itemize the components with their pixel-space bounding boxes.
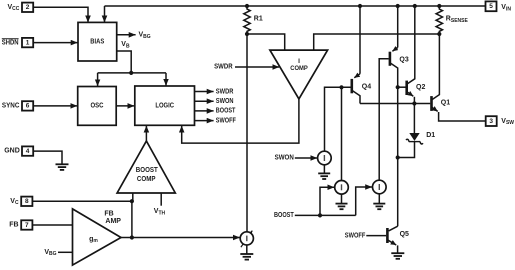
wire SWDR into I COMP [235,66,279,68]
op-amp I COMP [270,50,328,99]
wire OSC to LOGIC [116,105,134,107]
transistor Q5 (NPN) [366,226,409,253]
svg-text:BIAS: BIAS [90,39,104,46]
svg-text:COMP: COMP [137,176,156,183]
wire LOGIC output SWDR [195,91,214,93]
pin 1 SHDN box [22,38,33,47]
wire SWON arrow [295,157,317,159]
wire VC to node [32,200,131,202]
wire Q4 base junction down to current source B [341,87,343,181]
wire current source C to ground [378,194,380,204]
wire summer to ground [246,245,248,254]
wire GND pin to ground [33,151,62,164]
wire VBG to FB AMP [58,251,73,253]
pin 2 VCC box [22,3,33,12]
svg-text:R1: R1 [254,16,263,23]
svg-text:SWON: SWON [216,98,234,105]
svg-text:SHDN: SHDN [2,39,19,46]
wire VCC to BIAS top [33,7,88,22]
junction rail at Q4 emitter [358,4,362,8]
wire Q4 base [325,87,351,151]
svg-text:SWDR: SWDR [214,64,233,71]
wire current source B to ground [341,194,343,204]
svg-text:Q2: Q2 [416,84,425,91]
current source C [373,180,387,194]
svg-text:D1: D1 [426,132,435,139]
svg-text:SWON: SWON [275,154,294,161]
svg-text:Q1: Q1 [441,99,450,106]
junction rail at Q2 collector [413,4,417,8]
svg-text:2: 2 [26,4,30,11]
svg-text:Q3: Q3 [399,56,408,63]
wire BOOST horizontal [295,214,356,216]
ground (summer) [240,254,253,260]
diode D1 (schottky) [398,104,436,158]
svg-text:SWOFF: SWOFF [345,232,366,239]
ground (GND pin) [56,164,69,170]
op-amp FB AMP (gm) [73,209,122,265]
junction rail at Q3 emitter [396,4,400,8]
svg-text:OSC: OSC [91,103,104,110]
wire BOOST COMP to LOGIC [145,126,147,141]
wire VIN rail to BIAS top [104,6,106,22]
svg-text:I: I [298,58,300,65]
junction Q2 base [396,85,400,89]
wire VC node to FB AMP output [131,201,133,237]
transistor Q1 (NPN) [432,34,486,121]
pin 5 VIN box [486,1,497,11]
transistor Q3 (PNP) [390,6,409,226]
wire BOOST branch to current source B [320,187,334,215]
wire BOOST to current source C [356,187,372,215]
svg-text:BOOST: BOOST [136,167,159,174]
svg-text:SWOFF: SWOFF [216,117,237,124]
wire BOOST COMP left input [132,193,134,201]
op-amp BOOST COMP [117,141,175,193]
wire LOGIC output SWOFF [195,120,214,122]
current source B [335,181,349,195]
wire VB to LOGIC [165,73,167,86]
wire VB from BIAS [117,51,132,73]
junction Q2 emitter / Q1 base / D1 anode [412,101,416,105]
wire RSENSE bottom to I COMP right input [314,34,440,50]
wire FB AMP output to current summer [121,237,240,239]
junction FB AMP output [130,235,134,239]
transistor Q2 (NPN) [398,6,426,104]
wire LOGIC output SWON [195,100,214,102]
resistor RSENSE [436,6,442,34]
wire BOOST COMP VTH input [160,193,162,206]
svg-text:BOOST: BOOST [274,212,294,219]
wire SYNC to OSC [33,105,77,107]
block BIAS [78,22,117,61]
current source A [318,151,332,165]
pin 6 SYNC box [22,101,33,110]
svg-text:5: 5 [489,3,493,10]
wire VB horizontal [98,72,166,74]
block LOGIC [135,86,195,125]
wire VB to OSC [97,73,99,86]
pin 7 FB box [21,220,32,229]
svg-text:4: 4 [26,148,30,155]
svg-text:SYNC: SYNC [2,102,20,109]
svg-text:LOGIC: LOGIC [155,103,174,110]
pin 3 VSW box [486,116,497,126]
block OSC [78,87,117,126]
svg-text:Q5: Q5 [400,231,409,238]
svg-text:7: 7 [25,222,29,229]
wire current source A to ground [323,165,325,174]
wire Q4 collector to Q1 base [360,103,430,105]
svg-text:FB: FB [104,211,113,218]
wire LOGIC output BOOST [195,110,214,112]
current source summing node [240,231,253,248]
wire R1 line down to summer [246,34,248,232]
wire VIN top rail [105,5,486,7]
svg-text:COMP: COMP [290,65,308,72]
wire I COMP output to LOGIC [182,99,299,143]
svg-text:6: 6 [26,103,30,110]
wire BIAS VBG output [117,34,136,36]
svg-text:GND: GND [4,148,20,155]
ground (current source C) [373,204,385,210]
svg-text:8: 8 [25,198,29,205]
pin 8 VC box [21,197,32,206]
svg-text:1: 1 [26,39,30,46]
svg-text:3: 3 [489,118,493,125]
resistor R1 [244,6,250,34]
ground (current source A) [318,173,330,179]
svg-text:BOOST: BOOST [216,108,236,115]
svg-text:SWDR: SWDR [216,88,234,95]
junction VB [129,71,133,75]
junction Q4 base [339,85,343,89]
svg-text:AMP: AMP [105,218,121,225]
junction RSENSE bottom [437,32,441,36]
junction rail at R1 [245,4,249,8]
pin 4 GND box [22,146,33,155]
junction R1 bottom [245,32,249,36]
junction D1 cathode [396,155,400,159]
wire SHDN to BIAS [33,42,77,44]
ground (Q5 emitter) [391,253,404,259]
svg-text:Q4: Q4 [362,83,371,90]
wire R1 bottom to I COMP left input [247,34,285,50]
junction BOOST branch [318,213,322,217]
ground (current source B) [336,204,348,210]
junction rail at RSENSE [437,4,441,8]
transistor Q4 (PNP) [352,6,371,104]
wire Q3 base down to current source C [379,59,389,181]
svg-text:FB: FB [9,222,18,229]
pin 1 SHDN label (overlined) [2,39,19,47]
junction VC node [130,199,134,203]
wire FB to FB AMP [32,224,72,226]
